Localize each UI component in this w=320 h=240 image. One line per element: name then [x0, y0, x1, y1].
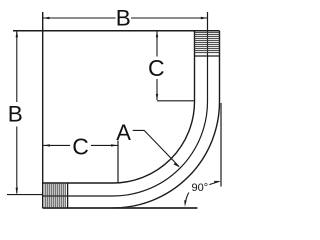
svg-text:C: C	[72, 134, 89, 160]
dimension C (bottom) right arrow	[111, 144, 118, 146]
top threads bottom edge	[195, 55, 220, 57]
90-degree left leader (curved, arrow to bottom leg)	[185, 193, 189, 204]
dimension C (horizontal, bottom area) line segments	[43, 144, 70, 146]
dimension C (bottom) left arrow	[43, 144, 50, 146]
top threads (male thread hatching on vertical arm end)	[195, 33, 220, 53]
inner wall (left wall of vertical arm, inner bend arc, top wall of horizontal arm)	[43, 31, 195, 183]
dimension B (vertical, left) line segments	[16, 32, 18, 103]
centerline (vertical arm centerline, bend centerline arc, horizontal arm centerline)	[43, 12, 208, 196]
dimension C (top) up arrow	[156, 31, 158, 38]
left end face line (end of horizontal arm + extension up to B dimension)	[42, 12, 44, 208]
leader line from A to centerline arc	[133, 130, 179, 166]
svg-text:B: B	[8, 102, 23, 127]
thread/bend plane marker line (top C extension)	[157, 100, 195, 102]
dimension B (horizontal) left arrow	[43, 17, 50, 19]
dimension C (vertical, top area) line segments	[156, 32, 158, 57]
dimension B (vertical) top arrow	[16, 31, 18, 38]
bend start plane extension line (bottom C)	[117, 141, 119, 183]
bottom threads (male thread hatching on horizontal arm end)	[45, 183, 65, 208]
dimension B (vertical) bottom arrow	[16, 188, 18, 195]
svg-text:B: B	[116, 6, 131, 31]
svg-text:C: C	[148, 55, 165, 81]
90-degree angle vertical extension leg (right)	[220, 103, 222, 187]
dimension B (horizontal) right arrow	[201, 17, 208, 19]
leader A arrowhead	[174, 163, 181, 168]
top end plane line (pipe end face plane + extension to left dimension)	[13, 30, 220, 32]
dimension C (top) down arrow	[156, 94, 158, 101]
svg-text:90°: 90°	[192, 182, 209, 194]
dimension B (horizontal, top) line segments	[43, 17, 116, 19]
svg-text:A: A	[116, 120, 131, 145]
B dimension bottom extension line (aligned to horizontal arm centerline)	[7, 194, 43, 196]
outer wall (right wall of vertical arm, outer bend arc)	[113, 31, 220, 208]
bottom wall + 90-degree angle horizontal extension leg	[43, 207, 198, 209]
90-degree right leader (arrow to right leg)	[209, 181, 219, 184]
bottom threads right edge	[67, 183, 69, 208]
